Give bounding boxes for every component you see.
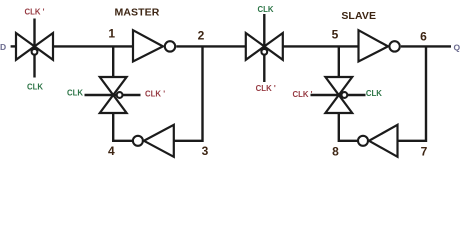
svg-text:2: 2 — [198, 28, 205, 42]
transmission gate TG2 (master to slave) — [246, 14, 283, 82]
wire node 1 branch down — [112, 46, 114, 78]
svg-text:MASTER: MASTER — [115, 7, 160, 19]
transmission gate TG4 (slave feedback) — [311, 77, 366, 113]
inverter U3 — [359, 30, 400, 61]
svg-text:CLK: CLK — [27, 83, 43, 92]
svg-text:CLK ': CLK ' — [24, 7, 44, 16]
feedback inverter U4 — [358, 125, 398, 157]
transmission gate TG3 (master feedback) — [85, 77, 141, 113]
wire U3 to Q — [401, 45, 451, 47]
svg-text:CLK: CLK — [366, 89, 382, 98]
svg-text:CLK ': CLK ' — [145, 90, 165, 99]
wire U1 to TG2 — [176, 45, 245, 47]
inverter U1 — [133, 30, 175, 61]
svg-text:3: 3 — [202, 144, 209, 158]
wire node 5 branch down — [338, 46, 340, 78]
svg-text:8: 8 — [332, 144, 339, 158]
svg-text:CLK: CLK — [257, 5, 273, 14]
wire TG2 to inverter U3 — [283, 45, 359, 47]
wire TG1 to inverter U1 — [53, 45, 133, 47]
feedback inverter U2 — [133, 125, 174, 157]
svg-text:7: 7 — [421, 144, 428, 158]
svg-text:Q: Q — [454, 43, 461, 53]
wire D input stub — [11, 45, 17, 47]
wire TG3 to node 4 — [113, 113, 132, 141]
svg-text:5: 5 — [332, 28, 339, 42]
svg-text:1: 1 — [108, 26, 115, 40]
transmission gate TG1 (D input) — [16, 19, 53, 78]
wire node 6 down to node 7 — [398, 46, 427, 140]
wire node 2 down to node 3 — [174, 46, 203, 140]
svg-text:4: 4 — [108, 144, 115, 158]
svg-text:D: D — [0, 42, 6, 52]
svg-text:CLK ': CLK ' — [256, 84, 276, 93]
svg-text:SLAVE: SLAVE — [341, 10, 376, 22]
svg-text:CLK: CLK — [67, 89, 83, 98]
wire TG4 to node 8 — [339, 113, 358, 141]
svg-text:6: 6 — [420, 30, 427, 44]
svg-text:CLK ': CLK ' — [292, 90, 312, 99]
